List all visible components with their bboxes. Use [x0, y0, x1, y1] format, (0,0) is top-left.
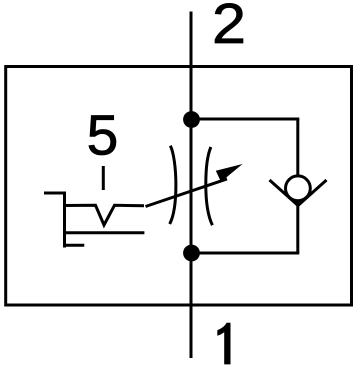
wire throttle path (node A to node B): [190, 120, 193, 254]
adjustment bracket bottom arm: [65, 244, 85, 247]
wire port 2 (top pipe): [190, 12, 193, 120]
node B (bottom junction dot): [183, 245, 200, 262]
throttle right arc: [206, 147, 213, 225]
node A (top junction dot): [183, 111, 200, 128]
check valve ball: [286, 176, 311, 201]
wire port 1 (bottom pipe): [190, 253, 193, 358]
adjustment arrow shaft: [146, 179, 228, 207]
adjustment bracket stem: [63, 192, 66, 248]
wire check-valve branch (vertical): [296, 119, 299, 253]
svg-text:5: 5: [87, 104, 119, 168]
leader line from label 5: [102, 166, 105, 190]
check valve seat: [270, 180, 327, 206]
svg-text:2: 2: [212, 0, 246, 56]
throttle left arc: [170, 146, 176, 224]
adjustment screw slot line with notch: [65, 205, 145, 225]
wire top branch (node A to check-valve branch): [191, 118, 299, 121]
adjustment screw lower line: [65, 231, 145, 234]
adjustment bracket top arm: [44, 192, 66, 195]
wire bottom branch (node B to check-valve branch): [191, 252, 299, 255]
label port 1: [217, 323, 230, 365]
adjustment arrow head: [216, 164, 243, 182]
valve enclosure frame: [6, 67, 352, 306]
